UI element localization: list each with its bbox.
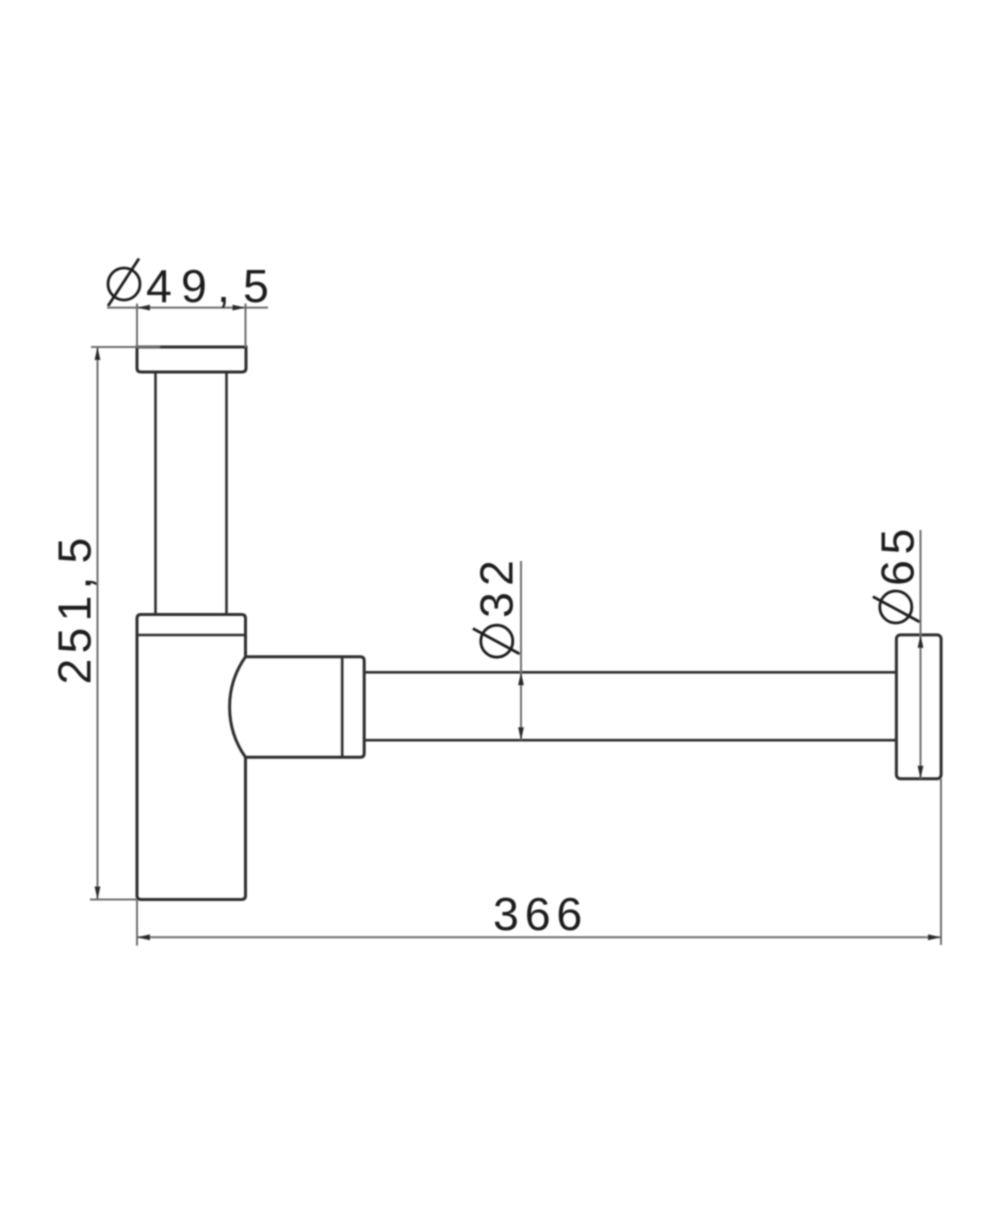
arrow dim32 bottom <box>518 727 524 740</box>
arrow dim251.5 top <box>95 347 101 360</box>
arrow dim251.5 bottom <box>95 887 101 900</box>
dim 49.5 dimension line <box>107 307 268 309</box>
outlet nut inner ring line <box>341 657 344 758</box>
wall flange <box>896 635 941 779</box>
svg-text:65: 65 <box>872 529 924 586</box>
dim 366 dimension line <box>137 936 941 938</box>
top flange (tailpiece nut) <box>137 347 246 372</box>
arrow dim49.5 left <box>137 305 150 311</box>
body cap separator line <box>137 634 246 636</box>
dim 49.5 left extension line <box>136 304 138 348</box>
dim 49.5 right extension line <box>245 304 247 348</box>
outlet tube bottom wall <box>364 739 896 742</box>
svg-text:366: 366 <box>493 888 582 940</box>
tailpipe left wall <box>154 372 157 615</box>
svg-text:32: 32 <box>471 560 523 618</box>
dim 251.5 dimension line <box>97 347 99 900</box>
arrow dim32 top <box>518 672 524 685</box>
arrow dim366 right <box>928 934 941 940</box>
dim 366 left extension line <box>136 900 138 946</box>
dim 251.5 bottom extension line <box>90 899 137 901</box>
arrow dim366 left <box>137 934 150 940</box>
arrow dim49.5 right <box>233 305 246 311</box>
dim 65 dimension line <box>920 530 922 779</box>
svg-text:251,5: 251,5 <box>49 538 101 685</box>
diameter symbol of dim 65 <box>873 591 920 623</box>
dim 32 dimension line <box>520 561 522 740</box>
dim 366 right extension line <box>940 779 942 945</box>
diameter symbol of dim 32 <box>473 625 520 657</box>
diameter symbol of dim 49.5 <box>108 259 140 307</box>
arrow dim65 top <box>918 635 924 648</box>
svg-text:49,5: 49,5 <box>146 260 269 312</box>
dim 251.5 top extension line <box>91 346 160 348</box>
outlet tube top wall <box>364 671 896 674</box>
bottle body outline <box>137 615 246 900</box>
arrow dim65 bottom <box>918 766 924 779</box>
outlet nut with domed left end <box>230 657 365 758</box>
tailpipe right wall <box>225 372 228 615</box>
